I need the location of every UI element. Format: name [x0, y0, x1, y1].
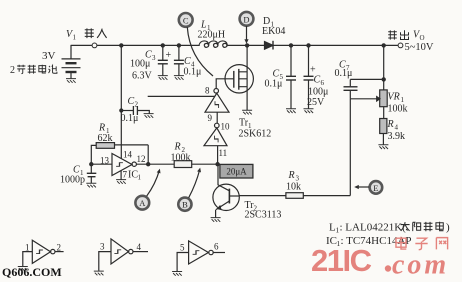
svg-text:): )	[446, 222, 450, 234]
label R3 10k	[286, 170, 301, 193]
svg-text:2: 2	[57, 243, 62, 253]
svg-text:Q606.COM: Q606.COM	[2, 265, 62, 279]
svg-text:1: 1	[25, 243, 30, 253]
spare inverter pins 3-4	[99, 239, 148, 271]
svg-text:8: 8	[205, 86, 210, 96]
svg-text:10k: 10k	[286, 182, 301, 193]
marker E circle with arrow	[354, 181, 382, 194]
ground: Tr2 emitter	[211, 218, 221, 222]
svg-text:2SC3113: 2SC3113	[245, 210, 282, 221]
svg-text:D: D	[243, 14, 249, 24]
label D1 EK04	[262, 16, 285, 37]
resistor R4 3.9k	[380, 119, 387, 145]
svg-text:5: 5	[180, 243, 185, 253]
label C5 0.1u	[265, 69, 284, 90]
inverter IC1e pin11-10	[204, 123, 227, 164]
svg-text:B: B	[182, 200, 188, 210]
svg-text:R: R	[98, 123, 105, 134]
svg-text:0.1μ: 0.1μ	[184, 67, 202, 78]
label VR1 100k	[388, 92, 408, 115]
svg-text:100μ: 100μ	[308, 87, 328, 98]
svg-text:C: C	[314, 75, 321, 86]
wire: main top rail	[71, 44, 398, 46]
ground: Tr1 source	[242, 110, 252, 114]
svg-text:100μ: 100μ	[130, 59, 150, 70]
svg-text:6.3V: 6.3V	[132, 71, 153, 82]
svg-text:25V: 25V	[307, 97, 325, 108]
wire: Tr2 base to R3	[239, 195, 286, 197]
battery B1 3V	[62, 45, 81, 78]
resistor R2 100k	[174, 161, 220, 168]
spare inverter pins 1-2	[23, 240, 64, 266]
svg-text:1000p: 1000p	[60, 175, 85, 186]
svg-text:com: com	[392, 250, 449, 281]
svg-text:0.1μ: 0.1μ	[265, 79, 283, 90]
annotation box 20uA	[220, 164, 253, 178]
svg-text:0.1μ: 0.1μ	[335, 68, 353, 79]
inverter IC1a oscillator pins 13-12-14-7	[90, 145, 174, 180]
svg-text:6: 6	[214, 242, 219, 252]
label C3 100u 6.3V	[130, 50, 156, 82]
svg-text:EK04: EK04	[262, 26, 285, 37]
svg-text:12: 12	[137, 154, 146, 164]
capacitor C4 0.1u	[174, 44, 184, 76]
svg-text:0.1μ: 0.1μ	[121, 113, 139, 124]
label C4 0.1u	[184, 56, 202, 78]
svg-text:7: 7	[123, 170, 128, 180]
svg-text:14: 14	[123, 150, 133, 160]
ground: inverter 2 input	[94, 271, 104, 275]
ground: battery	[66, 79, 76, 83]
svg-text:C: C	[128, 96, 135, 107]
capacitor C3 100u 6.3V	[158, 44, 168, 76]
ground: C5	[286, 109, 296, 113]
svg-text:3: 3	[100, 242, 105, 252]
ground: C6	[304, 109, 314, 113]
ground: R4	[378, 145, 388, 149]
svg-text:9: 9	[208, 113, 213, 123]
svg-text:62k: 62k	[98, 133, 113, 144]
ground: inverter 1 input	[18, 267, 28, 271]
label C7 0.1u	[335, 60, 353, 80]
transistor Tr2 2SC3113	[213, 164, 239, 217]
label C6 100u 25V with plus	[307, 65, 328, 109]
svg-text:2: 2	[10, 65, 15, 76]
ground: C4	[174, 76, 184, 80]
marker C circle with leader to gate	[179, 13, 213, 76]
capacitor C7 0.1u	[344, 78, 386, 99]
svg-text:E: E	[373, 183, 378, 193]
pin number 7 and IC1 designator	[123, 170, 142, 182]
svg-text:C: C	[184, 56, 191, 67]
marker D circle with arrow to drain node	[240, 12, 254, 44]
svg-text:11: 11	[219, 148, 228, 158]
capacitor C1 1000p	[87, 164, 97, 183]
label C2 0.1u	[121, 96, 139, 124]
marker A circle with leader	[135, 169, 160, 210]
svg-text:2: 2	[135, 101, 139, 109]
svg-text:O: O	[420, 34, 425, 42]
inductor L1 220uH	[199, 41, 227, 47]
label Tr1 2SK612	[239, 118, 272, 140]
label V1 input	[66, 29, 77, 42]
label 输出	[388, 30, 408, 39]
node: output terminal circle	[398, 43, 403, 48]
label C1 1000p	[60, 165, 85, 186]
label Tr2 2SC3113	[245, 200, 282, 221]
resistor R3 10k	[286, 193, 350, 199]
watermark 电子网 red	[396, 237, 448, 250]
note IC1 part number	[326, 235, 412, 248]
inverter IC1f pin9-8 (gate driver)	[205, 89, 229, 124]
svg-text:VR: VR	[388, 92, 400, 103]
svg-text:21IC: 21IC	[311, 243, 372, 278]
svg-text:13: 13	[100, 156, 110, 166]
capacitor C5 0.1u	[286, 44, 296, 109]
capacitor C6 100u 25V	[304, 44, 314, 109]
label VO 5~10V	[405, 30, 434, 54]
svg-text:1: 1	[73, 34, 77, 42]
wire: oscillator output to inverter inputs	[148, 95, 215, 97]
svg-text:3.9k: 3.9k	[388, 131, 406, 142]
svg-text:: LAL04221K(: : LAL04221K(	[340, 222, 407, 234]
svg-text:220μH: 220μH	[198, 30, 226, 41]
label 2节镉电池	[10, 65, 57, 76]
ground: C3	[158, 76, 168, 80]
svg-text:C: C	[183, 15, 189, 25]
svg-text:R: R	[288, 170, 295, 181]
svg-text:R: R	[174, 142, 181, 153]
marker B circle with leader	[178, 168, 201, 211]
svg-text:100k: 100k	[388, 104, 408, 115]
node: input terminal circle	[92, 43, 97, 48]
svg-text:4: 4	[137, 242, 142, 252]
ground: inverter 3 input	[172, 272, 182, 276]
ground: C2	[144, 114, 154, 118]
watermark 21IC.com red	[311, 243, 449, 281]
label R4 3.9k	[387, 119, 406, 142]
resistor R1 62k	[91, 143, 148, 165]
label L1 220uH	[198, 20, 226, 41]
svg-text:3: 3	[152, 54, 156, 62]
wire: feedback divider tap to Tr2 base node	[349, 99, 351, 196]
svg-text:20μA: 20μA	[226, 167, 247, 177]
svg-text:100k: 100k	[171, 153, 191, 164]
wire: feedback drop to pin12	[147, 145, 149, 164]
svg-text:+: +	[166, 50, 172, 61]
svg-text:3V: 3V	[42, 50, 56, 62]
label R1 62k	[98, 123, 113, 145]
note L1 part number	[329, 222, 450, 235]
wire: supply drop to IC1 pin14	[120, 44, 123, 145]
svg-text:10: 10	[221, 122, 231, 132]
spare inverter pins 5-6	[177, 241, 225, 271]
svg-text:R: R	[387, 119, 394, 130]
capacitor C2 0.1u	[120, 106, 150, 115]
label R2 100k	[171, 142, 191, 164]
svg-text:A: A	[139, 198, 146, 208]
svg-text:1: 1	[138, 174, 142, 182]
svg-text:5~10V: 5~10V	[405, 42, 434, 53]
svg-text:2SK612: 2SK612	[239, 129, 272, 140]
label 输入	[85, 28, 107, 38]
ground: IC1 pin7	[116, 180, 126, 184]
transistor Tr1 2SK612 (MOSFET)	[216, 44, 253, 110]
potentiometer VR1 100k	[350, 44, 387, 119]
ground: C1	[86, 183, 96, 187]
diode D1 EK04	[265, 41, 274, 50]
